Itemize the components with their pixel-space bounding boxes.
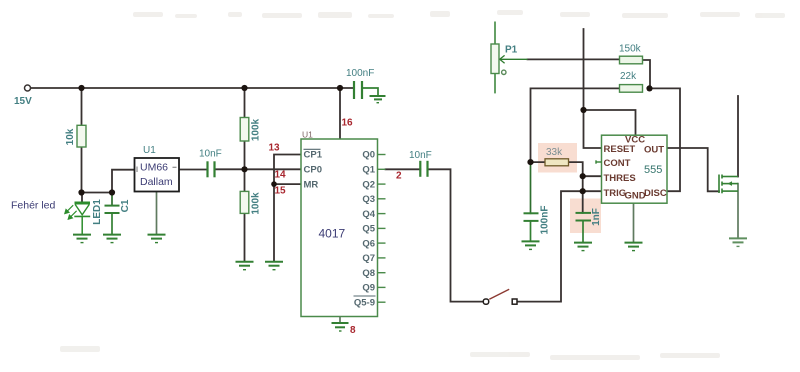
- svg-text:RESET: RESET: [604, 144, 636, 155]
- svg-text:10nF: 10nF: [409, 150, 432, 161]
- wire: 15V rail: [31, 87, 354, 89]
- svg-text:555: 555: [644, 164, 662, 176]
- ground (100nF right): [522, 241, 540, 249]
- node: VCC branch: [580, 107, 586, 113]
- svg-text:LED1: LED1: [92, 199, 103, 225]
- highlight behind resistor 33k: [538, 143, 577, 173]
- resistor 100k (upper): [240, 118, 249, 142]
- wire: 100k upper bottom lead: [244, 141, 246, 169]
- svg-text:1nF: 1nF: [591, 208, 602, 226]
- ground (MOSFET): [729, 238, 747, 246]
- resistor 33k (highlighted): [545, 159, 569, 166]
- svg-text:2: 2: [396, 171, 402, 182]
- highlight behind capacitor 1nF: [570, 199, 601, 234]
- wire: 100k lower leads: [244, 169, 246, 261]
- ground (100nF top): [370, 96, 386, 103]
- node: 22k right: [646, 85, 652, 91]
- LED light arrows: [65, 205, 77, 219]
- ground (UM66): [148, 235, 166, 243]
- node: LED top: [78, 189, 84, 195]
- svg-text:Q7: Q7: [362, 253, 375, 264]
- svg-text:U1: U1: [302, 130, 313, 140]
- svg-text:Q0: Q0: [362, 150, 375, 161]
- capacitor 100nF (right): [524, 213, 539, 241]
- wire: switch to TRIG: [517, 191, 583, 301]
- resistor 10k: [77, 125, 86, 147]
- node: CP0 / divider: [241, 166, 247, 172]
- pin stub CONT (open): [596, 160, 602, 163]
- wire: node row LED/C1: [82, 192, 113, 194]
- node: rail at 10k: [78, 85, 84, 91]
- wire: 33k right to THRES/TRIG line: [569, 162, 583, 213]
- IC U1 UM66: [135, 158, 180, 192]
- wire: UM66 right pin to 10nF: [179, 169, 208, 171]
- wire: VCC branch to 555: [584, 110, 636, 135]
- wire: 10k bottom lead to node: [81, 147, 83, 193]
- svg-text:4017: 4017: [319, 227, 346, 241]
- capacitor 1nF (highlighted): [576, 213, 592, 242]
- wire: VCC vertical net: [584, 29, 602, 148]
- wire: 555 GND stem: [633, 203, 635, 242]
- wire: Q1 to 10nF: [386, 168, 421, 170]
- svg-text:Q2: Q2: [362, 179, 375, 190]
- svg-text:OUT: OUT: [644, 145, 664, 156]
- svg-text:22k: 22k: [620, 71, 637, 82]
- switch right contact: [512, 299, 517, 304]
- capacitor 100nF (top, to ground): [354, 81, 378, 99]
- wire: LED anode lead: [81, 193, 83, 203]
- svg-text:P1: P1: [505, 45, 518, 56]
- svg-text:13: 13: [269, 143, 281, 154]
- capacitor 10nF (Q1 out): [420, 161, 427, 177]
- wire: UM66 ground stem: [156, 192, 158, 235]
- ground (1nF): [574, 243, 592, 251]
- wire: node to CP0 pin: [245, 168, 302, 170]
- svg-text:Q1: Q1: [362, 165, 375, 176]
- node: C1 top: [109, 189, 115, 195]
- wire: TRIG stub: [583, 190, 602, 192]
- ground (555): [625, 243, 643, 251]
- svg-text:DISC: DISC: [644, 188, 667, 199]
- svg-text:Q9: Q9: [362, 283, 375, 294]
- wire: 100nF top lead from node: [530, 162, 532, 213]
- wire: P1 wiper to 150k: [528, 58, 620, 60]
- node: THRES: [580, 173, 586, 179]
- svg-text:Q4: Q4: [362, 209, 375, 220]
- wire: 4017 gnd stem: [339, 317, 341, 323]
- switch lever: [489, 289, 509, 299]
- potentiometer P1: [494, 22, 496, 94]
- node: rail at 100k: [241, 85, 247, 91]
- wire: pin16 from rail: [339, 88, 341, 139]
- wire: THRES stub: [583, 175, 602, 177]
- svg-text:THRES: THRES: [604, 173, 636, 184]
- svg-text:CONT: CONT: [604, 158, 631, 169]
- wire: 150k right elbow down to 22k node: [643, 60, 651, 88]
- svg-text:TRIG: TRIG: [604, 188, 627, 199]
- svg-text:Q5: Q5: [362, 224, 375, 235]
- svg-text:CP0: CP0: [304, 165, 322, 176]
- resistor 100k (lower): [240, 191, 249, 213]
- wire: UM66 left pin to node: [112, 170, 135, 193]
- svg-text:U1: U1: [143, 145, 156, 156]
- svg-text:8: 8: [350, 325, 356, 336]
- svg-text:100k: 100k: [251, 192, 262, 215]
- svg-text:UM66: UM66: [140, 162, 168, 174]
- svg-text:MR: MR: [304, 179, 319, 190]
- pin tick right (UM66): [173, 166, 177, 168]
- svg-text:150k: 150k: [619, 44, 642, 55]
- svg-text:CP1: CP1: [304, 150, 323, 161]
- svg-text:100nF: 100nF: [346, 68, 374, 79]
- wire: 10k top lead: [81, 88, 83, 125]
- svg-text:10k: 10k: [65, 128, 76, 145]
- node: rail at pin16: [337, 85, 343, 91]
- resistor 150k: [620, 56, 643, 64]
- ground (C1): [103, 235, 121, 243]
- svg-text:10nF: 10nF: [199, 149, 222, 160]
- capacitor C1: [105, 206, 120, 234]
- node: MR tap: [271, 181, 277, 187]
- svg-text:16: 16: [342, 118, 354, 129]
- svg-text:33k: 33k: [546, 147, 563, 158]
- pin stubs right (4017 Q0-Q9, Q5-9): [378, 155, 386, 303]
- svg-text:C1: C1: [120, 199, 131, 212]
- wire: 22k node to DISC: [650, 88, 681, 191]
- switch S1: [483, 299, 488, 304]
- wire: 10nF down to switch: [428, 169, 484, 301]
- wire: C1 top lead: [111, 193, 113, 206]
- node: TRIG: [580, 188, 586, 194]
- wire: 100k upper top lead: [244, 88, 246, 118]
- svg-text:15: 15: [275, 186, 287, 197]
- wire: 10nF to CP0 node: [215, 168, 245, 170]
- svg-text:100nF: 100nF: [540, 206, 551, 235]
- resistor 22k: [620, 85, 643, 93]
- power terminal 15V: [25, 85, 31, 91]
- IC 555: [602, 135, 668, 203]
- wire: OUT to gate: [667, 148, 719, 191]
- ground (LED): [73, 235, 91, 243]
- svg-text:GND: GND: [625, 190, 646, 201]
- wire: MOSFET source to ground: [737, 184, 739, 238]
- MOSFET Q1: [719, 175, 738, 194]
- ground (4017): [332, 323, 349, 331]
- wire: CP1/MR to ground line: [274, 155, 301, 262]
- svg-text:Q6: Q6: [362, 238, 375, 249]
- ground (CP1/MR line): [265, 262, 283, 270]
- svg-text:Dallam: Dallam: [140, 176, 173, 188]
- ground (100k lower): [236, 262, 254, 270]
- svg-text:Q3: Q3: [362, 194, 375, 205]
- svg-text:15V: 15V: [14, 96, 32, 107]
- wire: 33k left lead: [531, 161, 546, 163]
- node: 33k left: [527, 159, 533, 165]
- pin tick left (UM66): [136, 167, 138, 173]
- svg-text:Fehér led: Fehér led: [11, 200, 56, 212]
- capacitor 10nF (UM66 out): [208, 161, 215, 177]
- IC U1 4017: [301, 139, 378, 317]
- wire: MOSFET drain vertical: [737, 96, 739, 177]
- LED LED1: [74, 203, 90, 234]
- svg-text:Q5-9: Q5-9: [354, 297, 375, 308]
- wire: 22k left lead down to 33k node: [531, 88, 620, 162]
- svg-text:14: 14: [275, 170, 287, 181]
- svg-text:Q8: Q8: [362, 268, 375, 279]
- svg-text:100k: 100k: [251, 118, 262, 141]
